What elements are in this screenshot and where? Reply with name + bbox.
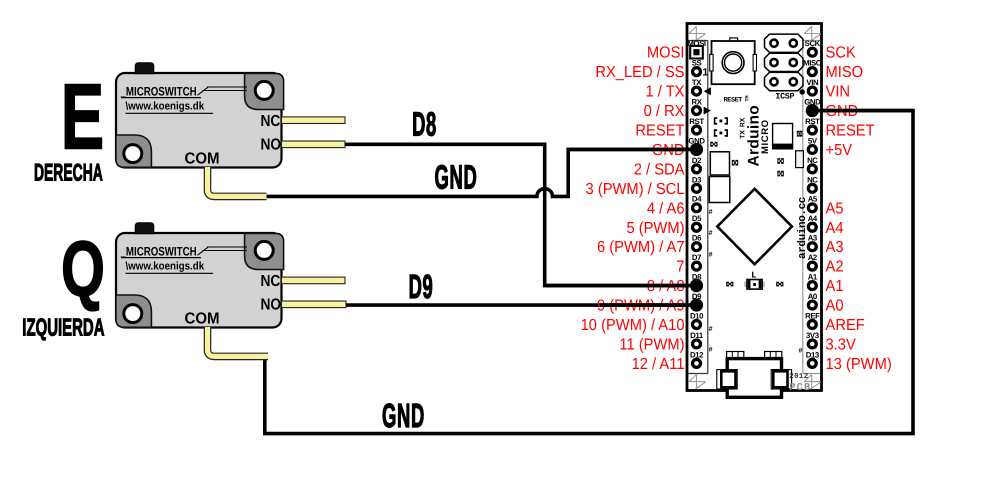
wire net GND-top: switch S1 COM to Arduino left GND pin (with hop over D8 wire) <box>263 149 692 196</box>
svg-text:A3: A3 <box>826 239 844 256</box>
svg-text:D10: D10 <box>690 311 704 320</box>
svg-text:5 (PWM): 5 (PWM) <box>626 220 684 237</box>
U1 right header column frame <box>803 41 820 374</box>
wire net D9: switch S2 NO to Arduino pin D9 <box>344 303 692 307</box>
junction dot at U1 D8 pin <box>690 279 703 292</box>
svg-text:GND: GND <box>435 160 478 197</box>
svg-text:0 / RX: 0 / RX <box>644 103 685 120</box>
svg-text:D2: D2 <box>692 156 702 165</box>
svg-text:VIN: VIN <box>826 84 851 101</box>
svg-text:A3: A3 <box>808 234 818 243</box>
svg-text:A2: A2 <box>808 253 818 262</box>
svg-text:SCK: SCK <box>826 45 857 62</box>
svg-text:ICSP: ICSP <box>775 92 794 102</box>
svg-text:TM: TM <box>745 95 751 101</box>
svg-text:MICRO: MICRO <box>760 119 771 154</box>
svg-text:#: # <box>799 348 803 355</box>
switch S2 pin NO lead <box>282 301 347 308</box>
label DERECHA <box>34 160 103 187</box>
U1 crystal <box>710 152 729 175</box>
svg-text:NO: NO <box>261 297 282 314</box>
junction dot at U1 right GND pin <box>806 104 819 117</box>
svg-text:MOSI: MOSI <box>647 45 685 62</box>
svg-text:MISO: MISO <box>826 64 864 81</box>
svg-text:REF: REF <box>805 311 820 320</box>
switch S2 pin NC lead <box>282 277 346 284</box>
svg-text:SS: SS <box>692 59 702 68</box>
U1 passive C3 <box>777 158 783 164</box>
U1 TX LED <box>714 129 728 136</box>
U1 RX TX silkscreen labels <box>739 117 746 139</box>
microswitch S1 top-right mounting corner <box>245 73 284 109</box>
U1 passive left of L LED <box>726 282 733 287</box>
U1 passive C1 <box>710 142 717 147</box>
junction dot at U1 D9 pin <box>690 298 703 311</box>
svg-text:MISO: MISO <box>803 59 822 68</box>
svg-text:A1: A1 <box>808 273 818 282</box>
U1 corner mark bottom-right <box>804 374 820 389</box>
svg-text:A5: A5 <box>826 200 844 217</box>
microswitch S1 plunger button <box>135 63 154 74</box>
wire net GND-bottom segment over right GND label <box>814 109 913 113</box>
U1 ICSP header <box>765 34 804 91</box>
microswitch S2 bottom-left mounting corner <box>116 295 151 327</box>
svg-text:D5: D5 <box>692 214 702 223</box>
svg-text:COM: COM <box>185 151 220 168</box>
svg-text:PCB: PCB <box>789 382 811 394</box>
microswitch S2 label COM <box>185 311 220 328</box>
U1 tantalum capacitor <box>773 124 793 149</box>
svg-text:RESET: RESET <box>635 123 684 140</box>
microswitch S1 label MICROSWITCH <box>120 85 247 99</box>
svg-text:RST: RST <box>689 117 704 126</box>
U1 passive C4 <box>777 171 783 177</box>
svg-text:\www.koenigs.dk: \www.koenigs.dk <box>126 101 205 113</box>
U1 right header pins <box>808 48 816 367</box>
wire net GND-bottom: Arduino right GND pin around board to switch S2 COM <box>265 111 913 434</box>
microswitch S1 label NO <box>261 137 282 154</box>
svg-text:A4: A4 <box>826 220 844 237</box>
svg-text:_MICROSWITCH: _MICROSWITCH <box>120 245 197 259</box>
svg-text:A4: A4 <box>808 214 818 223</box>
microswitch S1 bottom-left mounting corner <box>116 135 151 167</box>
svg-text:#: # <box>709 209 713 216</box>
U1 left pin labels (red) <box>581 45 685 373</box>
microswitch S2 label MICROSWITCH <box>120 245 247 259</box>
U1 corner mark top-left <box>689 26 705 41</box>
svg-text:3.3V: 3.3V <box>826 336 857 353</box>
svg-text:SCK: SCK <box>805 39 821 48</box>
U1 reset button <box>710 38 757 84</box>
svg-text:6 (PWM) / A7: 6 (PWM) / A7 <box>597 239 685 256</box>
svg-text:RX: RX <box>691 97 702 106</box>
svg-text:2 / SDA: 2 / SDA <box>634 161 685 178</box>
junction dot at U1 left GND pin <box>690 143 703 156</box>
svg-text:NC: NC <box>807 175 818 184</box>
U1 pin13 LED <box>744 280 765 290</box>
wire net GND-top segment over left GND label <box>568 148 692 152</box>
microswitch S1 label www.koenigs.dk <box>126 101 214 114</box>
svg-text:_MICROSWITCH: _MICROSWITCH <box>120 85 197 99</box>
svg-text:2012: 2012 <box>789 372 808 381</box>
svg-text:D6: D6 <box>692 234 702 243</box>
U1 RX LED <box>714 117 728 124</box>
svg-text:D7: D7 <box>692 253 701 262</box>
U1 corner mark bottom-left <box>689 374 705 389</box>
svg-text:NO: NO <box>261 137 282 154</box>
svg-text:A0: A0 <box>826 298 844 315</box>
U1 passive C2 <box>732 160 738 166</box>
svg-text:Q: Q <box>61 225 105 313</box>
switch S1 pin NO lead <box>282 141 346 148</box>
svg-text:NC: NC <box>261 113 281 130</box>
svg-text:11 (PWM): 11 (PWM) <box>619 336 684 353</box>
U1 passive right of L LED <box>776 282 783 287</box>
U1 right header tiny pin names <box>803 39 822 359</box>
svg-text:RX_LED / SS: RX_LED / SS <box>595 64 684 81</box>
wire net D8 segment to pin <box>545 284 692 288</box>
svg-text:A5: A5 <box>808 195 818 204</box>
wire net D8: switch S1 NO to Arduino pin D8 <box>343 144 692 285</box>
wire label D9 <box>409 269 434 306</box>
U1 left header pins <box>693 68 701 368</box>
svg-text:A1: A1 <box>826 278 844 295</box>
microswitch S2 label www.koenigs.dk <box>126 261 214 274</box>
svg-text:DERECHA: DERECHA <box>34 160 103 187</box>
U1 reset silkscreen text <box>724 95 751 104</box>
svg-text:3 (PWM) / SCL: 3 (PWM) / SCL <box>586 181 685 198</box>
U1 corner mark top-right <box>804 26 820 41</box>
U1 PWM hash marks <box>709 209 803 355</box>
microswitch S1 top-right screw hole <box>255 81 273 99</box>
U1 ICSP pin1 dot <box>800 89 805 94</box>
U1 passive C5 <box>797 131 803 137</box>
U1 TX direction arrow <box>704 87 711 95</box>
svg-text:RESET: RESET <box>724 97 743 105</box>
svg-text:NC: NC <box>261 273 281 290</box>
svg-text:D3: D3 <box>692 175 702 184</box>
svg-text:arduino.cc: arduino.cc <box>797 197 809 259</box>
svg-text:7: 7 <box>676 259 684 276</box>
svg-text:TX: TX <box>692 78 702 87</box>
U1 left header column frame <box>689 41 708 374</box>
U1 pin 1 MOSI square pad <box>690 46 703 59</box>
U1 regulator <box>796 151 804 168</box>
svg-text:13 (PWM): 13 (PWM) <box>826 356 892 373</box>
svg-text:D13: D13 <box>806 350 820 359</box>
Arduino Micro U1 board outline <box>687 24 822 391</box>
U1 micro-USB connector <box>717 352 792 398</box>
microswitch S1 bottom-left screw hole <box>124 145 142 163</box>
microswitch S2 body <box>116 233 282 328</box>
svg-text:10 (PWM) / A10: 10 (PWM) / A10 <box>581 317 685 334</box>
label IZQUIERDA <box>22 315 104 342</box>
svg-text:GND: GND <box>382 398 425 435</box>
wire label D8 <box>412 107 437 144</box>
microswitch S2 label NO <box>261 297 282 314</box>
microswitch S2 top-right screw hole <box>255 241 273 259</box>
svg-text:D8: D8 <box>412 107 437 144</box>
svg-text:12 / A11: 12 / A11 <box>632 356 685 373</box>
svg-text:NC: NC <box>807 156 818 165</box>
microswitch S2 plunger button <box>135 223 154 234</box>
svg-text:A0: A0 <box>808 292 818 301</box>
label E (right switch key) <box>61 65 104 169</box>
microswitch S1 label COM <box>185 151 220 168</box>
svg-text:4 / A6: 4 / A6 <box>647 200 685 217</box>
label Q (left switch key) <box>61 225 105 313</box>
wire label GND (bottom) <box>382 398 425 435</box>
microswitch S1 label NC <box>261 113 281 130</box>
U1 right pin labels (red) <box>826 45 892 373</box>
svg-text:D9: D9 <box>409 269 434 306</box>
svg-text:A2: A2 <box>826 259 844 276</box>
microswitch S2 label NC <box>261 273 281 290</box>
switch S1 pin NC lead <box>282 117 346 124</box>
svg-text:1 / TX: 1 / TX <box>646 84 685 101</box>
svg-text:D11: D11 <box>690 331 704 340</box>
svg-text:RST: RST <box>805 117 820 126</box>
microswitch S2 top-right mounting corner <box>245 233 284 269</box>
svg-text:COM: COM <box>185 311 220 328</box>
svg-text:D4: D4 <box>692 195 702 204</box>
svg-text:IZQUIERDA: IZQUIERDA <box>22 315 104 342</box>
svg-text:#: # <box>709 326 713 333</box>
svg-text:3V3: 3V3 <box>806 331 820 340</box>
microswitch S1 body <box>116 73 282 168</box>
svg-text:MOSI: MOSI <box>687 39 706 48</box>
switch S1 pin COM lead <box>208 167 267 196</box>
svg-text:1: 1 <box>702 66 708 78</box>
U1 RX direction arrow <box>704 107 711 115</box>
svg-text:\www.koenigs.dk: \www.koenigs.dk <box>126 261 205 273</box>
U1 ATmega32U4 chip (rotated) <box>717 189 792 264</box>
U1 IC below crystal <box>709 177 730 203</box>
svg-text:VIN: VIN <box>806 78 819 87</box>
wire net D9 segment over red label <box>600 303 692 307</box>
switch S2 pin COM lead <box>208 327 269 356</box>
U1 left header tiny pin names <box>687 39 706 359</box>
svg-text:D12: D12 <box>690 350 704 359</box>
svg-text:#: # <box>709 252 713 259</box>
svg-text:#: # <box>709 230 713 237</box>
svg-text:E: E <box>61 65 104 169</box>
svg-text:+5V: +5V <box>826 142 853 159</box>
svg-text:5V: 5V <box>808 136 818 145</box>
svg-text:#: # <box>709 347 713 354</box>
svg-text:RESET: RESET <box>826 123 875 140</box>
svg-text:AREF: AREF <box>826 317 865 334</box>
wire label GND (top) <box>435 160 478 197</box>
microswitch S2 bottom-left screw hole <box>124 305 142 323</box>
